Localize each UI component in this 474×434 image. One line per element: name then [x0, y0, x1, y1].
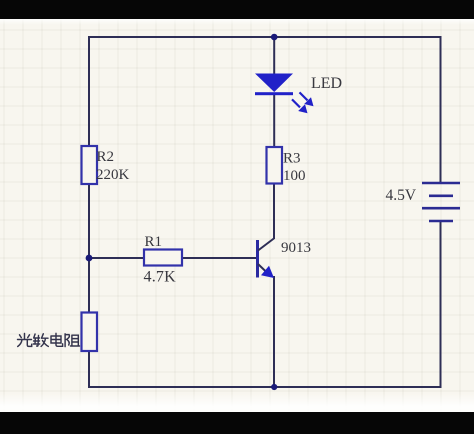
- node top junction: [271, 34, 278, 41]
- wire LED anode: [273, 36, 275, 74]
- glyph min: [33, 334, 48, 347]
- wire left rail middle: [88, 183, 90, 313]
- wire left rail upper: [88, 36, 90, 147]
- svg-text:R1: R1: [145, 234, 163, 250]
- value 100: [283, 168, 306, 184]
- label 4.5V: [386, 187, 417, 204]
- label 光敏电阻 (photoresistor, drawn glyphs): [18, 333, 80, 346]
- bright band under top bar: [0, 19, 474, 25]
- label LED: [311, 75, 342, 92]
- glyph dian: [51, 333, 63, 346]
- wire base: [89, 257, 256, 259]
- label 9013: [281, 240, 311, 256]
- svg-text:R2: R2: [97, 149, 115, 165]
- wire R3 to collector: [273, 183, 275, 239]
- wire emitter down: [273, 276, 275, 388]
- value 220K: [96, 167, 130, 183]
- svg-text:100: 100: [283, 168, 306, 184]
- node base junction: [86, 255, 93, 262]
- glyph zu: [65, 334, 79, 347]
- wire right rail upper: [440, 36, 442, 183]
- photoresistor RG: [82, 313, 98, 352]
- bright band above bottom bar: [0, 393, 474, 412]
- wire right rail lower: [440, 221, 442, 388]
- wire top rail: [89, 36, 441, 38]
- resistor R3: [267, 147, 283, 184]
- transistor Q1 9013: [258, 238, 275, 278]
- resistor R1: [144, 250, 182, 266]
- glyph guang: [18, 334, 32, 347]
- svg-text:4.5V: 4.5V: [386, 187, 417, 204]
- svg-text:4.7K: 4.7K: [144, 269, 177, 286]
- battery BT1 4.5V: [422, 183, 460, 221]
- label R3: [283, 151, 301, 167]
- resistor R2: [82, 146, 98, 184]
- wire bottom rail: [89, 386, 441, 388]
- wire left rail lower: [88, 350, 90, 388]
- svg-text:9013: 9013: [281, 240, 311, 256]
- wire LED cathode to R3: [273, 95, 275, 148]
- label R1: [145, 234, 163, 250]
- LED D1: [255, 74, 314, 114]
- svg-text:LED: LED: [311, 75, 342, 92]
- node bottom junction: [271, 384, 277, 390]
- value 4.7K: [144, 269, 177, 286]
- svg-text:R3: R3: [283, 151, 301, 167]
- svg-text:220K: 220K: [96, 167, 130, 183]
- label R2: [97, 149, 115, 165]
